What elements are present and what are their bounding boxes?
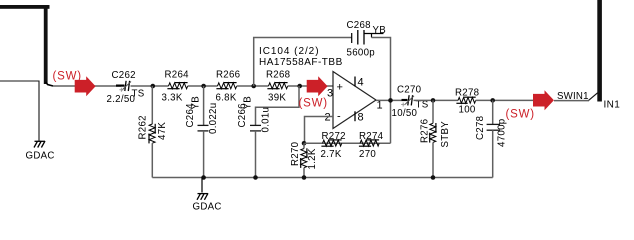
capacitor C278 (vertical) xyxy=(475,100,508,177)
bus bar right vertical IN1 xyxy=(597,0,602,102)
svg-text:R262: R262 xyxy=(138,115,149,139)
svg-text:STBY: STBY xyxy=(440,121,451,148)
svg-text:IC104 (2/2): IC104 (2/2) xyxy=(259,46,319,57)
svg-text:39K: 39K xyxy=(268,92,286,103)
resistor R268 xyxy=(266,70,290,104)
svg-text:GDAC: GDAC xyxy=(26,151,55,162)
wire: rail right segment down to output xyxy=(372,38,391,144)
svg-text:C270: C270 xyxy=(397,85,422,96)
node feedback junction xyxy=(302,141,307,146)
capacitor C266 (vertical) xyxy=(237,96,272,178)
svg-text:R278: R278 xyxy=(455,88,479,99)
svg-text:R266: R266 xyxy=(216,70,240,81)
wire: R268 to node D and op-amp pin3 xyxy=(288,85,333,87)
wire: diagonal into bus xyxy=(589,93,598,101)
wire: bottom ground rail xyxy=(152,177,492,179)
svg-text:YB: YB xyxy=(191,96,202,110)
resistor R274 xyxy=(359,131,384,160)
node D junction xyxy=(297,84,302,89)
node R276 junction xyxy=(431,98,436,103)
wire: R278 to arrow xyxy=(476,99,533,101)
node output junction xyxy=(388,98,393,103)
junction R276-rail xyxy=(431,175,436,180)
node C278 junction xyxy=(490,98,495,103)
resistor R276 (vertical) xyxy=(420,100,452,177)
wire: C270 to R278 xyxy=(414,99,459,101)
ground GDAC (left) xyxy=(34,141,45,148)
svg-text:R276: R276 xyxy=(420,119,431,143)
wire: left shield L to ground xyxy=(0,81,39,141)
wire: R264 to node B xyxy=(188,85,218,87)
wire: arrow to SWIN1 bus xyxy=(554,100,589,102)
resistor R272 xyxy=(321,131,346,160)
svg-text:C278: C278 xyxy=(475,116,486,140)
svg-text:47K: 47K xyxy=(157,122,168,140)
resistor R262 (vertical) xyxy=(138,86,169,178)
svg-text:0.01u: 0.01u xyxy=(261,107,272,133)
svg-text:(SW): (SW) xyxy=(53,71,82,83)
wire: pin2 to feedback node xyxy=(305,117,334,144)
capacitor C268 xyxy=(347,20,387,59)
svg-text:R270: R270 xyxy=(290,141,301,166)
wire: feedback bottom rail xyxy=(305,142,391,144)
svg-text:IN1: IN1 xyxy=(604,99,621,110)
svg-text:3: 3 xyxy=(327,88,333,100)
junction C264-rail xyxy=(201,175,206,180)
node A junction xyxy=(151,84,156,89)
resistor R264 xyxy=(162,70,190,104)
resistor R270 (vertical) xyxy=(290,141,318,177)
svg-text:R264: R264 xyxy=(165,70,190,81)
svg-text:R268: R268 xyxy=(266,70,290,81)
wire: diagonal from bus bottom to main wire xyxy=(46,82,53,86)
svg-text:0.022u: 0.022u xyxy=(208,103,219,134)
svg-text:270: 270 xyxy=(359,149,376,160)
wire: main input wire to C262 xyxy=(53,85,121,87)
svg-text:8: 8 xyxy=(358,112,364,124)
svg-text:SWIN1: SWIN1 xyxy=(557,91,589,102)
bus bar top-left vertical xyxy=(44,5,48,84)
svg-text:-: - xyxy=(337,111,341,123)
svg-text:2: 2 xyxy=(325,112,331,124)
arrow SW 2 xyxy=(307,76,328,96)
svg-text:2.7K: 2.7K xyxy=(321,149,342,160)
arrow SW 3 xyxy=(533,90,554,110)
svg-text:10/50: 10/50 xyxy=(392,108,418,119)
op-amp U IC104 xyxy=(259,46,383,129)
svg-text:(SW): (SW) xyxy=(506,109,535,121)
resistor R266 xyxy=(216,70,241,104)
svg-text:5600p: 5600p xyxy=(347,48,375,59)
junction R270-rail xyxy=(302,175,307,180)
wire: node D L-drop to C266 xyxy=(256,86,300,125)
svg-text:C262: C262 xyxy=(112,70,136,81)
svg-text:4700p: 4700p xyxy=(497,119,508,147)
svg-text:(SW): (SW) xyxy=(299,98,328,110)
svg-text:R274: R274 xyxy=(359,131,384,142)
wire: op-amp output xyxy=(376,99,402,101)
svg-text:YB: YB xyxy=(373,25,387,36)
ground GDAC (bottom) xyxy=(193,178,222,213)
svg-text:+: + xyxy=(337,82,343,94)
junction C266-rail xyxy=(253,175,258,180)
wire: C268 top rail xyxy=(254,38,352,87)
svg-text:3.3K: 3.3K xyxy=(162,92,183,103)
svg-text:C268: C268 xyxy=(347,20,371,31)
svg-text:1.2K: 1.2K xyxy=(307,148,318,169)
capacitor C264 (vertical) xyxy=(185,86,219,178)
svg-text:6.8K: 6.8K xyxy=(216,92,237,103)
resistor R278 xyxy=(455,88,479,116)
capacitor C270 xyxy=(392,85,429,120)
capacitor C262 xyxy=(107,70,145,105)
wire: C262 to node A xyxy=(131,85,169,87)
node C junction xyxy=(251,84,256,89)
svg-text:4: 4 xyxy=(358,77,364,89)
svg-text:R272: R272 xyxy=(322,131,346,142)
svg-text:2.2/50: 2.2/50 xyxy=(107,94,136,105)
svg-text:1: 1 xyxy=(377,100,383,112)
svg-text:HA17558AF-TBB: HA17558AF-TBB xyxy=(259,57,343,68)
svg-text:YB: YB xyxy=(243,96,254,110)
node B junction xyxy=(201,84,206,89)
arrow SW 1 xyxy=(75,76,96,96)
wire: R266 to node C xyxy=(237,85,269,87)
svg-text:100: 100 xyxy=(459,105,476,116)
bus bar top-left horizontal xyxy=(0,5,50,9)
svg-text:GDAC: GDAC xyxy=(193,202,222,213)
